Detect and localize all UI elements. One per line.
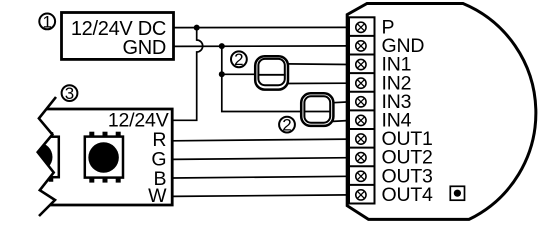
- LED chip D2 (full): [85, 132, 123, 183]
- screw terminal OUT1: [356, 134, 366, 144]
- screw terminal IN2: [356, 78, 366, 88]
- svg-text:1: 1: [42, 12, 51, 31]
- screw terminal OUT3: [356, 171, 366, 181]
- svg-text:GND: GND: [122, 37, 166, 59]
- junction dot on GND wire: [219, 43, 225, 49]
- wire W: strip to OUT4: [173, 195, 349, 197]
- svg-text:12/24V: 12/24V: [108, 109, 169, 131]
- wire: S2 to IN4: [333, 120, 349, 123]
- screw terminal GND: [356, 41, 366, 51]
- wire: P junction down to LED strip 12/24V with hop over GND wire: [173, 28, 203, 121]
- push button S1: [255, 56, 288, 89]
- LED chip D1 (torn, partial): [20, 132, 59, 182]
- screw terminal OUT4: [356, 190, 366, 200]
- LED strip labels: [108, 109, 169, 207]
- svg-text:2: 2: [282, 116, 291, 135]
- svg-text:3: 3: [65, 84, 74, 103]
- callout circled 3: [62, 84, 78, 103]
- junction dot at button1 branch: [219, 71, 225, 77]
- callout circled 2 for S2: [279, 116, 295, 135]
- wire G: strip to OUT2: [173, 158, 349, 160]
- screw terminal OUT2: [356, 152, 366, 162]
- wire: branch to button S1: [222, 73, 256, 75]
- svg-text:OUT4: OUT4: [382, 184, 434, 206]
- torn left edge: [38, 97, 56, 216]
- wire: GND junction bus down to buttons: [222, 46, 302, 111]
- junction dot on P wire: [194, 25, 200, 31]
- callout circled 2 for S1: [231, 50, 247, 69]
- wire: S2 to IN3: [333, 101, 349, 104]
- screw terminal IN4: [356, 115, 366, 125]
- screw terminal P: [356, 22, 366, 32]
- LED strip LS1 body: [38, 97, 173, 216]
- svg-text:W: W: [148, 185, 167, 207]
- wire B: strip to OUT3: [173, 176, 349, 178]
- power supply box PS1: [62, 13, 174, 60]
- push button S2: [301, 93, 333, 126]
- terminal block of U1: [349, 17, 375, 203]
- screw terminal IN3: [356, 97, 366, 107]
- terminal labels: [382, 16, 434, 206]
- wire: S1 to IN2: [288, 82, 350, 84]
- wire R: strip to OUT1: [173, 139, 349, 141]
- svg-text:2: 2: [234, 50, 243, 69]
- wire GND: supply - to terminal GND: [173, 45, 349, 48]
- indicator square with dot on U1: [450, 186, 464, 200]
- wire P: supply + to terminal P: [173, 26, 349, 28]
- callout circled 1: [39, 12, 55, 31]
- wire: S1 to IN1: [288, 63, 350, 66]
- controller device U1 outline: [347, 4, 536, 220]
- screw terminal IN1: [356, 59, 366, 69]
